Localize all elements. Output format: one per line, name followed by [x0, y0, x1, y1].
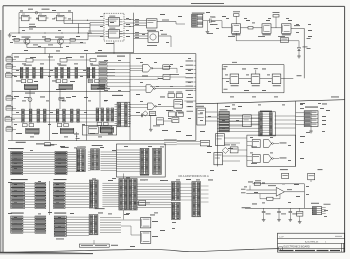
svg-text:C.I.P: C.I.P — [279, 237, 284, 239]
svg-text:A-SCHEM-03: A-SCHEM-03 — [305, 240, 319, 243]
svg-text:ELECTRONICS BOARD: ELECTRONICS BOARD — [284, 245, 310, 248]
svg-text:CR.A ASSTRONICS CR.A: CR.A ASSTRONICS CR.A — [178, 174, 209, 178]
